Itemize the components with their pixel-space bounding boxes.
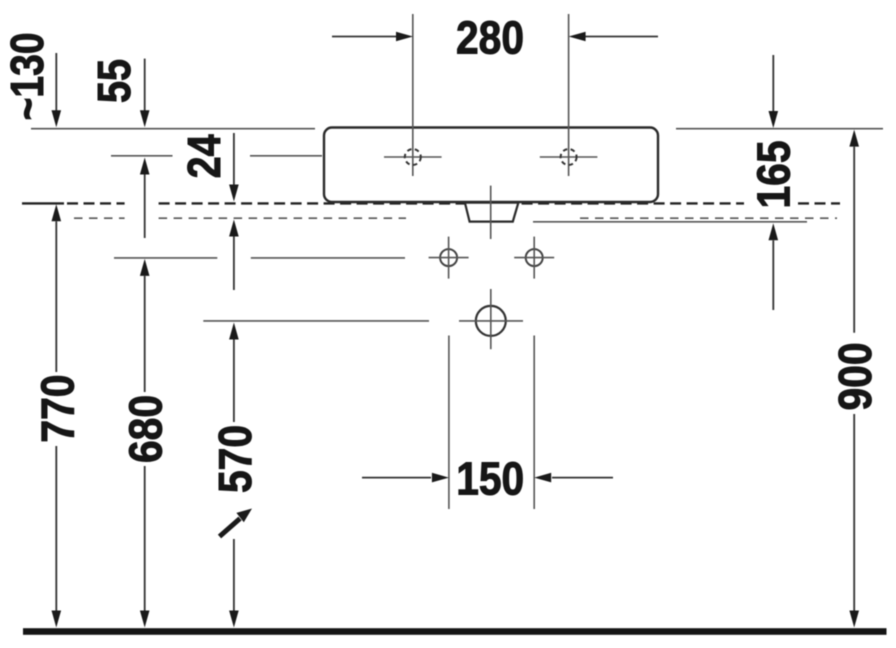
dashed line 1 segment a xyxy=(67,202,125,204)
dim 570 arrowhead down at floor xyxy=(229,611,239,628)
big circle crosshair horizontal xyxy=(459,320,523,322)
fixing holes level line left segment xyxy=(114,257,217,259)
right fixing hole circle xyxy=(526,249,543,266)
dashed line 1 segment b xyxy=(159,202,744,204)
dim 55 upper line xyxy=(144,59,146,112)
dim 770 arrowhead down at floor xyxy=(52,611,62,628)
dim 150 right arrowhead xyxy=(534,473,551,483)
dim 680 upper line xyxy=(144,276,146,392)
dim 770 upper line xyxy=(55,221,57,372)
dim 570 upper arrowhead up xyxy=(229,323,239,340)
dashed line 2 segment c xyxy=(580,217,837,219)
dashed line 1 (basin underside level) solid lead-in xyxy=(22,202,64,204)
dim 900 upper line xyxy=(853,147,855,333)
drain center line xyxy=(490,186,492,239)
dim 900 arrowhead down at floor xyxy=(849,611,859,628)
dim 165 lower tail line xyxy=(772,240,774,310)
svg-text:165: 165 xyxy=(748,141,800,209)
svg-text:280: 280 xyxy=(456,12,524,64)
dim 280 right arrowhead xyxy=(569,32,586,42)
svg-text:770: 770 xyxy=(31,375,83,443)
dim 770 lower line xyxy=(55,446,57,611)
wall/rim reference line left segment xyxy=(31,128,315,130)
faucet level reference line right segment xyxy=(250,155,322,157)
dim 570 lower line xyxy=(233,539,235,611)
right fixing hole crosshair horizontal xyxy=(514,257,554,259)
left faucet hole dashed circle xyxy=(405,149,421,165)
dashed line 1 segment c xyxy=(798,202,840,204)
dim 24 arrowhead down xyxy=(229,185,239,202)
floor line xyxy=(23,628,887,635)
dim ~130 line xyxy=(55,53,57,112)
left faucet hole extension line (280 dim) xyxy=(412,14,414,176)
dim 900 upper arrowhead up xyxy=(849,130,859,147)
dim 770 upper arrowhead up xyxy=(52,204,62,221)
dim 150 right arrow line xyxy=(552,477,613,479)
right faucet hole dashed circle xyxy=(561,149,577,165)
big circle level reference line to the left xyxy=(203,320,429,322)
dim 24 lower arrowhead up xyxy=(229,220,239,237)
dim 280 right arrow line xyxy=(577,36,658,38)
fixing holes level line right segment xyxy=(251,257,405,259)
wall/rim reference line right segment xyxy=(676,128,883,130)
dim 280 left arrowhead xyxy=(396,32,413,42)
dim 680 lower line xyxy=(144,466,146,611)
faucet level reference line left segment xyxy=(111,155,173,157)
dim 150 right extension line xyxy=(533,336,535,510)
svg-text:900: 900 xyxy=(829,343,881,411)
big drain circle xyxy=(476,306,506,336)
left fixing hole crosshair horizontal xyxy=(429,257,469,259)
dim 680 upper arrowhead up xyxy=(140,259,150,276)
left faucet hole crosshair horizontal xyxy=(384,156,442,158)
dim 570 upper line xyxy=(233,340,235,423)
dim 165 arrowhead down xyxy=(769,111,779,128)
dim 165 lower arrowhead up xyxy=(769,223,779,240)
svg-text:~130: ~130 xyxy=(1,32,53,120)
dim 24 upper line xyxy=(233,133,235,186)
dim 150 left extension line xyxy=(448,336,450,510)
dashed line 2 segment b xyxy=(159,217,406,219)
dim 55 arrowhead down xyxy=(140,110,150,127)
svg-text:150: 150 xyxy=(456,452,524,504)
dim 150 left arrow line xyxy=(362,477,431,479)
adjustable height diagonal arrowhead xyxy=(236,509,252,523)
svg-text:680: 680 xyxy=(120,395,172,463)
dashed line 2 (shelf level) segment a xyxy=(74,217,125,219)
left fixing hole circle xyxy=(440,249,457,266)
right faucet hole crosshair horizontal xyxy=(540,156,598,158)
dim 24 lower tail line xyxy=(233,237,235,291)
basin body outline xyxy=(324,128,658,203)
adjustable height diagonal arrow xyxy=(220,519,241,537)
right fixing hole crosshair vertical xyxy=(533,237,535,279)
left fixing hole crosshair vertical xyxy=(448,237,450,279)
dim 900 lower line xyxy=(853,414,855,611)
big circle crosshair vertical xyxy=(490,289,492,349)
svg-text:570: 570 xyxy=(209,425,261,493)
svg-text:24: 24 xyxy=(178,134,230,178)
dim 55 lower tail line xyxy=(144,175,146,239)
dim 165 upper line xyxy=(772,55,774,113)
right faucet hole extension line (280 dim) xyxy=(568,14,570,176)
dim ~130 arrowhead down xyxy=(52,110,62,127)
dim 280 left arrow line xyxy=(332,36,404,38)
drain outlet trapezoid xyxy=(465,203,519,222)
drain bottom reference line xyxy=(533,221,807,223)
dim 150 left arrowhead xyxy=(432,473,449,483)
dim 680 arrowhead down at floor xyxy=(140,611,150,628)
dim 55 lower arrowhead up xyxy=(140,158,150,175)
svg-text:55: 55 xyxy=(88,59,140,103)
